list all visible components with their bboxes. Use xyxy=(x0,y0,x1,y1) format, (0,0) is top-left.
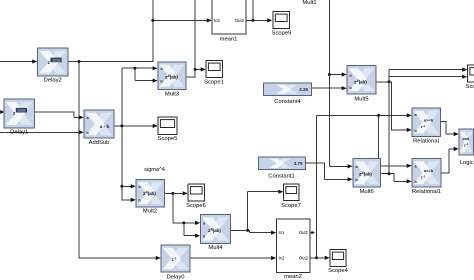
svg-text:Relational: Relational xyxy=(413,138,439,144)
svg-text:and: and xyxy=(463,137,470,141)
svg-text:Relational1: Relational1 xyxy=(412,189,441,195)
svg-text:Scope8: Scope8 xyxy=(466,84,474,90)
svg-text:z-6(ab): z-6(ab) xyxy=(354,79,367,86)
svg-text:sigma^4: sigma^4 xyxy=(144,167,165,173)
svg-text:3.75: 3.75 xyxy=(294,161,303,166)
svg-text:mean1: mean1 xyxy=(220,37,238,43)
svg-text:a>=b: a>=b xyxy=(424,117,434,122)
svg-text:Scope5: Scope5 xyxy=(158,136,178,142)
svg-text:Scope7: Scope7 xyxy=(281,203,301,209)
svg-text:Scope6: Scope6 xyxy=(186,203,206,209)
svg-text:Delay1: Delay1 xyxy=(10,129,28,135)
svg-text:Out2: Out2 xyxy=(235,18,245,23)
svg-text:Constant1: Constant1 xyxy=(268,173,294,179)
svg-text:Mult6: Mult6 xyxy=(360,189,374,195)
svg-text:mean2: mean2 xyxy=(284,274,302,280)
svg-text:Mult1: Mult1 xyxy=(302,0,316,6)
svg-text:z-6(ab): z-6(ab) xyxy=(359,171,372,178)
svg-text:Mult2: Mult2 xyxy=(143,209,157,215)
svg-text:Scope1: Scope1 xyxy=(204,79,224,85)
svg-text:2.25: 2.25 xyxy=(299,87,308,92)
svg-text:z-6(ab): z-6(ab) xyxy=(165,74,178,81)
svg-text:In1: In1 xyxy=(279,230,285,235)
svg-text:z-6(ab): z-6(ab) xyxy=(143,191,156,198)
svg-text:Delay0: Delay0 xyxy=(166,274,184,280)
svg-text:Scope9: Scope9 xyxy=(272,30,292,36)
svg-text:In2: In2 xyxy=(214,18,220,23)
svg-text:Mult5: Mult5 xyxy=(354,96,368,102)
svg-text:In2: In2 xyxy=(279,256,285,261)
svg-text:1028: 1028 xyxy=(52,58,60,62)
svg-text:Logical: Logical xyxy=(460,160,474,166)
svg-text:Scope4: Scope4 xyxy=(328,268,348,274)
svg-text:Delay2: Delay2 xyxy=(44,78,62,84)
svg-text:Constant4: Constant4 xyxy=(274,99,301,105)
svg-text:Out2: Out2 xyxy=(299,256,309,261)
svg-text:Mult4: Mult4 xyxy=(208,245,223,251)
svg-text:z-6(ab): z-6(ab) xyxy=(208,228,221,235)
svg-text:Mult3: Mult3 xyxy=(165,91,179,97)
svg-text:a>=b: a>=b xyxy=(424,168,434,173)
svg-text:1028: 1028 xyxy=(17,109,25,113)
svg-text:a - b: a - b xyxy=(100,124,110,130)
svg-text:AddSub: AddSub xyxy=(89,140,110,146)
svg-text:Out1: Out1 xyxy=(299,230,309,235)
